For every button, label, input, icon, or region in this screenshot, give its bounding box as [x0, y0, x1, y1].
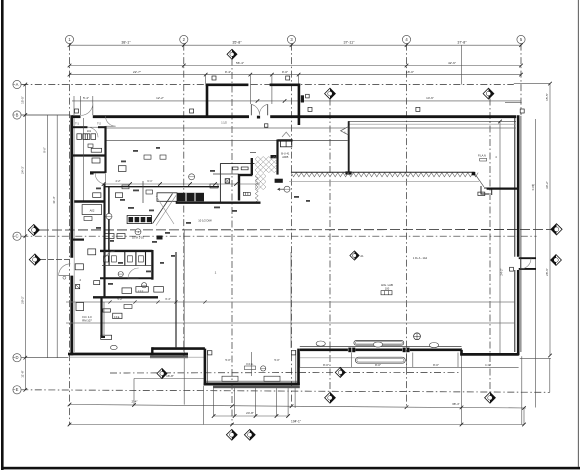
toilet room wall y=127.2 b — [98, 126, 106, 128]
interior long line y=140.3 — [106, 139, 348, 141]
svg-text:1'-0": 1'-0" — [485, 363, 491, 367]
bottom dimension line y=416 — [214, 415, 289, 417]
svg-text:B: B — [16, 112, 19, 117]
svg-text:T-1: T-1 — [75, 122, 79, 126]
kitchen partition x=143 — [142, 181, 144, 203]
svg-text:37'-11": 37'-11" — [344, 41, 356, 45]
wall square marker 1 — [75, 109, 79, 113]
north vestibule top wall b — [270, 84, 301, 87]
grid bubble 4 top — [402, 35, 410, 43]
page right border — [577, 0, 579, 467]
mezzanine corner block — [345, 171, 351, 174]
kitchen wall y=202.7 — [176, 202, 261, 204]
left wall fixture 2 — [88, 249, 96, 255]
exterior bottom wall left — [68, 353, 188, 356]
exterior bottom wall mid c — [410, 348, 462, 351]
right dim tie y=102.7 — [505, 102, 522, 104]
section marker diamond left A-A — [28, 224, 39, 235]
svg-text:24'-3": 24'-3" — [20, 166, 24, 174]
stage fixture divider — [285, 141, 287, 147]
stall rail y=265.5 — [102, 265, 152, 267]
vestibule ext d x=255.5 — [255, 388, 257, 417]
cooler fixture 2 — [241, 167, 248, 170]
svg-text:9'-4": 9'-4" — [225, 70, 231, 74]
vestibule ext f x=288.1 — [287, 388, 289, 417]
svg-text:2'-4": 2'-4" — [132, 400, 138, 404]
north vestibule top wall a — [206, 84, 249, 87]
door tag box left — [76, 285, 80, 289]
interior wall x=101.5 lower — [100, 297, 102, 338]
wall square marker 6 — [306, 94, 310, 98]
toilet fixture 4 — [91, 134, 96, 140]
grid line column 1 vertical x=69.5 — [69, 44, 71, 425]
extension vestibule left — [205, 75, 207, 84]
interior wall stub y=239.6 — [71, 239, 84, 241]
kitchen counter line y=186.7 — [105, 186, 220, 188]
svg-text:16'-8": 16'-8" — [166, 374, 174, 378]
cooler thick wall x=239 — [238, 174, 240, 201]
sidewalk edge line bottom-left — [68, 356, 204, 358]
dishwash dark mark — [157, 236, 163, 240]
section stub y=259.6 — [40, 259, 70, 261]
grid line row E horizontal y=389.8 sloped — [21, 390, 550, 393]
column marker right of vestibule — [301, 95, 304, 102]
right wall inner face lower — [514, 270, 516, 352]
svg-text:6'-4": 6'-4" — [165, 297, 170, 301]
exterior right wall lower — [517, 270, 520, 355]
grid line row D stub y=357.7 — [21, 357, 68, 359]
svg-text:5'-0": 5'-0" — [274, 358, 279, 362]
serving counter cells — [127, 216, 152, 224]
svg-text:11'-8": 11'-8" — [20, 370, 24, 377]
svg-text:22'-7": 22'-7" — [133, 70, 141, 74]
interior wall y=155.5 — [72, 154, 106, 156]
stage line to mezzanine — [293, 139, 348, 141]
section marker diamond top x=488 — [483, 88, 494, 99]
exterior bottom wall mid a — [300, 348, 348, 351]
corridor line x=83.5 — [83, 118, 85, 202]
exterior top wall segment c — [270, 115, 516, 118]
section marker diamond right door — [551, 255, 562, 266]
grid bubble C left — [13, 232, 21, 240]
downspout box — [478, 192, 485, 195]
svg-text:F.F.E.: F.F.E. — [114, 317, 120, 319]
grid line column 3 vertical x=291.5 — [291, 44, 293, 406]
left wall fixture 1 — [75, 264, 83, 270]
cooking equipment row — [157, 193, 177, 202]
svg-text:A1: A1 — [360, 254, 364, 258]
svg-text:15'-5": 15'-5" — [20, 96, 24, 104]
svg-text:101: 101 — [87, 130, 92, 133]
svg-text:104'-1": 104'-1" — [291, 420, 301, 424]
left dimension line x=25.3 — [24, 85, 26, 390]
mullion ext 1 — [351, 353, 353, 368]
room fixture y=158 — [92, 158, 100, 163]
kitchen dim line y=184 — [104, 183, 260, 185]
svg-text:6'-1": 6'-1" — [147, 179, 152, 183]
downspout bracket — [481, 186, 492, 195]
toilet block wall x=105.5 — [104, 126, 106, 173]
svg-text:56'-4": 56'-4" — [236, 61, 244, 65]
block balloon 2 — [142, 283, 147, 288]
section line vertical x=330 — [329, 99, 331, 393]
svg-text:28'-6": 28'-6" — [545, 268, 549, 276]
grid column 5 lower extension — [521, 356, 523, 424]
section marker diamond y=373 b — [335, 367, 345, 377]
toilet counter — [91, 148, 101, 152]
exterior top wall segment a — [72, 115, 81, 118]
dim extension x=291 lower — [290, 252, 292, 348]
south vestibule mat left — [222, 376, 238, 381]
extension vestibule right — [298, 75, 300, 84]
south vestibule inner bottom — [206, 380, 298, 382]
svg-text:F.D. 4.0: F.D. 4.0 — [82, 315, 92, 319]
dim extension x=184.2 lower — [183, 230, 185, 405]
toilet sink — [88, 144, 93, 147]
grid bubble B left — [13, 111, 21, 119]
stall partition x=145.5 — [145, 252, 147, 266]
dim ext x=458 — [457, 353, 459, 368]
south vestibule centre mullion — [251, 352, 253, 376]
page left border — [1, 0, 4, 470]
extension vestibule door right — [271, 75, 273, 104]
mezzanine wall x=348.7 — [348, 121, 350, 173]
stall partition x=109.1 — [108, 252, 110, 266]
north vestibule square marker right — [286, 76, 290, 80]
bottom dimension line y=378.5 — [134, 378, 204, 380]
oval tag 1 — [316, 341, 325, 346]
canopy end taper — [475, 175, 484, 187]
hall label box divider — [384, 291, 386, 295]
extension top-left door a — [73, 96, 75, 115]
block wall x=152.4 — [151, 250, 153, 280]
section marker diamond bottom pair a — [226, 429, 237, 440]
wall circle marker — [110, 345, 117, 349]
north vestibule left wall — [206, 84, 209, 116]
grid line row A horizontal y=84.5 — [21, 84, 514, 86]
svg-text:A: A — [16, 82, 19, 87]
door arc corridor to hall — [106, 116, 116, 126]
svg-text:12'-2": 12'-2" — [156, 96, 164, 100]
south vestibule mat right — [264, 376, 280, 381]
section marker diamond right A-A — [551, 224, 562, 235]
canopy hatch sawtooth band y=172-177 — [291, 173, 478, 177]
kitchen equipment 3 — [122, 185, 129, 189]
cooler top line y=163.4 — [220, 162, 254, 164]
south vestibule corner post left — [208, 351, 212, 355]
extension top-left door b — [80, 96, 82, 115]
stall partition x=135.9 — [135, 252, 137, 266]
floor joint line y=323 — [66, 322, 515, 324]
interior wall y=201.5 — [74, 200, 104, 202]
exterior top wall segment b — [93, 115, 249, 118]
svg-text:P.LA.N: P.LA.N — [478, 154, 486, 158]
grid line row C horizontal y=236.2 — [21, 235, 536, 237]
cooler stub y=152.5 — [250, 152, 256, 154]
canopy rounded outline lower — [355, 357, 405, 363]
mezzanine outline top y=121.3 — [348, 120, 516, 122]
block wall y=250.9 — [100, 250, 152, 252]
svg-text:1 1/2: 1 1/2 — [221, 122, 227, 125]
hall dim x=104 — [103, 302, 105, 335]
south vestibule left wall — [204, 349, 207, 385]
stage fixture box — [280, 141, 291, 147]
section marker diamond top x=330 — [325, 88, 336, 99]
door arc block 2 — [105, 251, 115, 262]
svg-text:30'-2": 30'-2" — [545, 181, 549, 189]
svg-text:4'-2": 4'-2" — [115, 179, 120, 183]
room A02 fixture — [84, 217, 92, 221]
svg-text:E: E — [16, 387, 19, 392]
section marker diamond bottom pair b — [244, 429, 255, 440]
door arc toilet room — [88, 127, 98, 137]
svg-text:29'-2": 29'-2" — [20, 296, 24, 304]
svg-text:24'-2": 24'-2" — [499, 268, 503, 275]
cooler shelf line y=174 — [213, 173, 239, 175]
svg-text:8'-0": 8'-0" — [433, 363, 439, 367]
lattice hatch dish area — [255, 157, 277, 190]
kitchen equipment 4 — [146, 190, 153, 194]
svg-text:18'-0": 18'-0" — [406, 70, 414, 74]
right protrusion top wall — [519, 257, 536, 259]
top dimension line 3 y=74.5 — [70, 74, 522, 76]
svg-text:100: 100 — [385, 287, 390, 291]
door arc exterior left wall — [59, 264, 71, 279]
interior wall stub y=188.6 — [487, 188, 518, 190]
right protrusion bottom wall — [519, 268, 536, 270]
dishwash equip 2 — [117, 234, 125, 239]
oval tag 3 — [429, 343, 438, 348]
right dimension line x=550 — [549, 84, 551, 356]
dim ext x=412.8 — [412, 353, 414, 368]
bottom dimension line y=424.5 — [69, 424, 525, 426]
south vestibule right wall — [297, 349, 300, 385]
svg-text:F.F.E.: F.F.E. — [247, 362, 254, 366]
left wall fixture 3 — [76, 303, 84, 311]
section marker diamond left 2 — [29, 254, 40, 265]
stall partition x=124.8 — [124, 252, 126, 266]
exterior left wall upper — [70, 115, 73, 257]
south vestibule bottom wall — [204, 383, 300, 386]
dining divider line x=176 — [175, 252, 177, 348]
exterior bottom wall right — [460, 353, 519, 356]
wall square marker 2 — [190, 109, 194, 113]
stage balloon — [284, 186, 290, 192]
hall fixture 2 — [113, 313, 122, 318]
bottom dimension line y=367.3 — [300, 366, 455, 368]
floor joint line y=302 — [66, 301, 515, 303]
dishwash equip 1 — [104, 234, 114, 239]
svg-text:C: C — [15, 234, 18, 239]
svg-text:15'-5": 15'-5" — [545, 93, 549, 101]
svg-text:9'-6": 9'-6" — [43, 147, 47, 153]
top dimension line 4 y=100.9 — [72, 100, 521, 102]
grid bubble E left — [13, 386, 21, 394]
north vestibule right wall — [298, 84, 301, 126]
wall square marker 5 — [520, 109, 524, 113]
grid bubble 3 top — [287, 35, 295, 43]
svg-text:10 1/2 D/W: 10 1/2 D/W — [198, 218, 212, 222]
grid bubble 2 top — [180, 35, 188, 43]
left wall inner face line — [73, 118, 75, 352]
svg-text:1 FL A - 1A2: 1 FL A - 1A2 — [413, 256, 428, 260]
svg-text:D: D — [15, 355, 18, 360]
plan label box — [480, 158, 487, 161]
section marker diamond top x=232 — [227, 49, 237, 59]
equip at wall end — [101, 335, 112, 339]
top dimension line 2 y=65.5 — [70, 65, 522, 67]
bottom wall step x=152.3 — [151, 347, 153, 355]
cooler west line x=220.4 — [219, 163, 221, 201]
page bottom border — [1, 467, 580, 470]
left dimension line x=57.2 — [56, 115, 58, 358]
svg-text:T-2: T-2 — [97, 122, 101, 126]
kitchen text smudges — [96, 188, 101, 190]
hall diamond x=354.5 — [350, 251, 359, 260]
canopy rounded outline upper — [354, 341, 404, 346]
door centre stile nub — [257, 116, 260, 119]
exterior bottom wall mid b — [355, 348, 402, 351]
right wall outer face line — [520, 116, 522, 352]
hall label box — [381, 291, 392, 295]
kitchen fixture nw — [118, 166, 126, 172]
hall fixture 1 — [103, 309, 111, 312]
block wall y=278.3 — [100, 277, 152, 279]
svg-text:F.F.E.: F.F.E. — [138, 291, 144, 294]
extension top-left door c — [92, 96, 94, 115]
bottom wall step x=461.5 — [460, 350, 463, 355]
svg-text:38'-1": 38'-1" — [121, 41, 131, 45]
stage wall x=277.5 — [276, 140, 278, 175]
svg-text:A02: A02 — [90, 209, 95, 213]
bottom dimension line y~406 — [70, 405, 527, 409]
grid bubble A left — [13, 80, 21, 88]
section line vertical x=490 — [489, 99, 491, 393]
wall square marker 3 — [308, 107, 312, 111]
dish area small rects — [275, 179, 283, 183]
vestibule ext g x=295.1 — [294, 388, 296, 409]
kitchen equipment 6 — [144, 155, 151, 159]
right dim line y=367.3 part — [455, 366, 519, 368]
kitchen balloon 2 — [106, 213, 112, 219]
bottom dim extension x=461.5 — [461, 348, 463, 425]
cooler marker box — [225, 179, 229, 183]
mullion ext 2 — [405, 353, 407, 368]
hall fixture 3 — [124, 305, 132, 309]
grid line column 2 vertical x=183.8 — [183, 44, 185, 358]
interior long line y=128 — [106, 127, 516, 129]
kitchen balloon 3 — [135, 229, 141, 235]
svg-text:24'-8": 24'-8" — [246, 411, 254, 415]
right dimension line x=535.5 — [535, 119, 537, 408]
ramp diagonal — [153, 194, 173, 224]
svg-text:37'-8": 37'-8" — [457, 41, 467, 45]
bottom wall inner face line — [300, 346, 462, 348]
right protrusion square marker — [510, 267, 514, 271]
top dimension line 1 y=45 — [70, 44, 522, 46]
vestibule ext b x=213.6 — [213, 388, 215, 417]
mullion pair 1 — [348, 348, 351, 353]
south vestibule balloon — [261, 366, 266, 371]
kitchen equipment 1 — [115, 193, 122, 198]
south vestibule corner post right — [291, 351, 295, 355]
door arc top-left entry — [81, 104, 93, 116]
toilet fixture 3 — [85, 134, 90, 140]
block balloon 1 — [118, 272, 123, 277]
sidewalk hatch band bottom-left — [150, 356, 188, 359]
section marker diamond bottom x=490 — [485, 392, 496, 403]
svg-text:9'-0": 9'-0" — [282, 70, 288, 74]
small square y=125.5 — [265, 124, 268, 127]
exterior right wall upper — [517, 115, 520, 256]
kitchen equipment 2 — [93, 193, 101, 198]
grid line column 5 vertical x=521 — [520, 44, 522, 116]
toilet room wall y=127.2 a — [72, 126, 88, 128]
south vestibule label box — [245, 366, 256, 370]
exterior left wall lower — [70, 276, 73, 356]
right dim tie top y=83.6 — [514, 83, 550, 85]
left wall fixture 4 — [94, 281, 100, 285]
svg-text:5'-2": 5'-2" — [117, 297, 122, 301]
kitchen west wall x=104.5 — [103, 184, 105, 297]
svg-text:35'-8": 35'-8" — [232, 41, 242, 45]
section marker diamond y=373 a — [157, 369, 167, 379]
svg-text:5'-4": 5'-4" — [83, 96, 89, 100]
leader flag triangle — [341, 127, 348, 135]
bottom dim terminator x=524 — [523, 408, 525, 425]
svg-text:RM 107: RM 107 — [82, 319, 92, 323]
door arc kitchen door 1 — [95, 174, 105, 185]
grid line row B stub y=115 — [21, 114, 70, 116]
grid line column 4 vertical x=406.5 — [406, 44, 408, 408]
equip row 2 — [136, 287, 148, 293]
grid bubble D left — [13, 354, 21, 362]
svg-text:10 M 1-10: 10 M 1-10 — [132, 236, 145, 240]
kitchen north wall y=173.5 a — [90, 173, 94, 175]
svg-text:8'-0": 8'-0" — [323, 363, 329, 367]
south vestibule hatch band — [213, 386, 300, 388]
corridor wall x=108.9 — [108, 187, 110, 251]
equip row 3 — [154, 287, 164, 293]
cooler thick wall y=175 — [238, 174, 252, 176]
room A02 counter — [82, 205, 102, 215]
south vestibule inner left — [207, 350, 209, 383]
mezzanine outline top inner y=124.2 — [348, 123, 516, 125]
kitchen balloon 1 — [189, 174, 195, 180]
left dimension line x=47.7 — [47, 115, 49, 358]
equip row 1 — [122, 288, 132, 294]
walkway line y=357.8 — [300, 357, 356, 359]
kitchen equipment 5 — [210, 184, 218, 188]
stage balloon arrow — [278, 188, 284, 190]
svg-text:5'-0": 5'-0" — [225, 358, 230, 362]
ext x=134 — [133, 379, 135, 406]
dim ticks on floor line — [108, 300, 111, 303]
cooler thick wall x=251.8 — [251, 158, 253, 175]
canopy hatch end block — [472, 172, 476, 175]
cooler fixture 1 — [233, 167, 238, 170]
canopy lower gray line y=181.7 — [289, 181, 479, 183]
mullion pair 2 — [403, 348, 406, 353]
dark tick rect — [271, 155, 277, 158]
south vestibule inner right — [295, 350, 297, 383]
vestibule ext e x=276.5 — [276, 388, 278, 417]
grid bubble 1 top — [65, 35, 73, 43]
right dim ext x=549.8 — [549, 358, 551, 392]
grid bubble 5 top — [517, 35, 525, 43]
kitchen equipment 7 — [160, 155, 166, 159]
svg-text:HIG. LAB: HIG. LAB — [381, 283, 393, 287]
